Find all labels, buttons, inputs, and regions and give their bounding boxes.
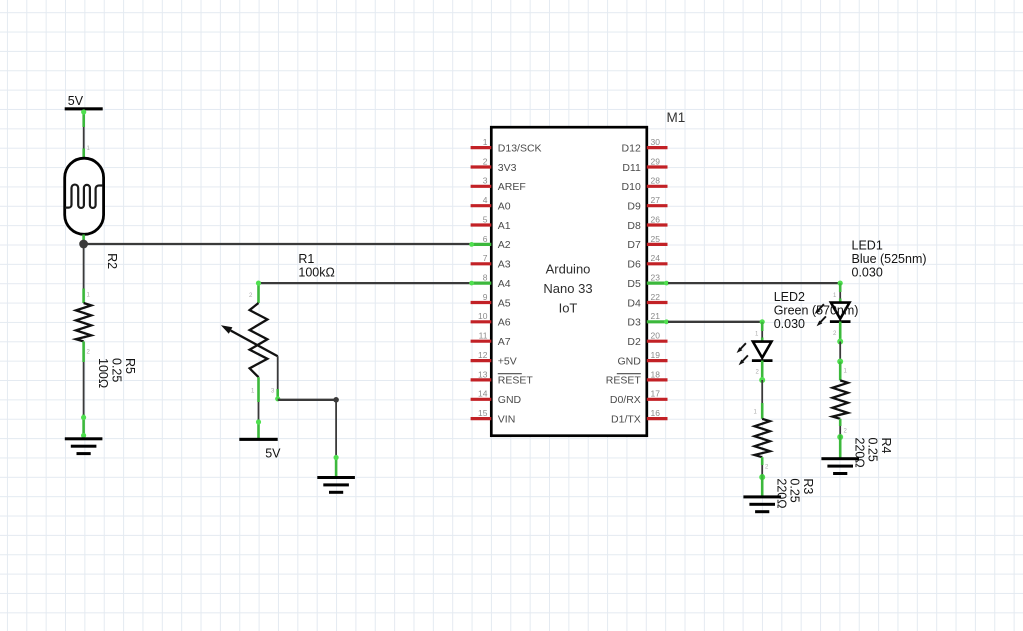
svg-text:GND: GND (498, 394, 522, 406)
svg-text:1: 1 (844, 369, 848, 375)
svg-text:2: 2 (833, 331, 837, 337)
svg-text:0.25: 0.25 (788, 478, 802, 502)
svg-text:D10: D10 (622, 181, 641, 193)
svg-text:A1: A1 (498, 220, 511, 232)
label R1 value (298, 252, 334, 279)
svg-text:RESET: RESET (606, 375, 642, 387)
svg-text:A7: A7 (498, 336, 511, 348)
svg-text:1: 1 (87, 146, 91, 152)
label R2 (105, 253, 119, 269)
svg-text:13: 13 (478, 369, 488, 379)
svg-text:24: 24 (651, 253, 661, 263)
svg-text:4: 4 (483, 195, 488, 205)
svg-text:27: 27 (651, 195, 661, 205)
svg-text:D1/TX: D1/TX (611, 413, 641, 425)
svg-text:30: 30 (651, 137, 661, 147)
svg-text:18: 18 (651, 369, 661, 379)
svg-text:20: 20 (651, 331, 661, 341)
svg-text:VIN: VIN (498, 413, 516, 425)
wire pin3 to bend (278, 399, 336, 401)
svg-text:0.030: 0.030 (774, 317, 805, 331)
svg-text:R4: R4 (879, 438, 893, 454)
svg-text:2: 2 (483, 156, 488, 166)
svg-text:D12: D12 (622, 142, 641, 154)
ground (R1) (317, 476, 355, 494)
wire junction to R5 pin1 (84, 244, 91, 303)
svg-text:AREF: AREF (498, 181, 526, 193)
wire LDR to junction (82, 235, 85, 245)
svg-text:A2: A2 (498, 239, 511, 251)
svg-text:1: 1 (483, 137, 488, 147)
wire bend to ground (334, 400, 339, 477)
svg-text:1: 1 (251, 389, 255, 395)
wire R1 pin1 to 5V (251, 377, 261, 438)
label LED1 (852, 239, 927, 280)
svg-text:22: 22 (651, 292, 661, 302)
svg-text:3: 3 (271, 389, 275, 395)
ground (R5) (65, 437, 103, 455)
svg-text:0.25: 0.25 (110, 358, 124, 382)
svg-text:D9: D9 (627, 201, 641, 213)
wire 5V to LDR (81, 109, 90, 158)
svg-text:D3: D3 (627, 317, 641, 329)
svg-text:0.030: 0.030 (852, 266, 883, 280)
svg-text:10: 10 (478, 311, 488, 321)
svg-text:5: 5 (483, 214, 488, 224)
svg-text:6: 6 (483, 234, 488, 244)
svg-text:12: 12 (478, 350, 488, 360)
label R4 value (852, 438, 893, 468)
svg-text:+5V: +5V (498, 355, 517, 367)
svg-text:5V: 5V (265, 446, 281, 460)
svg-text:D7: D7 (627, 239, 641, 251)
ground (R4) (821, 457, 859, 475)
svg-text:3V3: 3V3 (498, 162, 517, 174)
svg-text:Green (570nm): Green (570nm) (774, 303, 859, 317)
svg-text:15: 15 (478, 408, 488, 418)
svg-text:2: 2 (756, 370, 760, 376)
svg-text:2: 2 (765, 465, 769, 471)
svg-text:16: 16 (651, 408, 661, 418)
photoresistor R2 (LDR) body (65, 158, 104, 234)
IC M1 pins (469, 137, 669, 425)
wire A4 to R1 pin2 (249, 281, 470, 304)
svg-text:R1: R1 (298, 252, 314, 266)
label LED2 (774, 290, 859, 331)
svg-text:GND: GND (617, 355, 641, 367)
svg-text:1: 1 (755, 332, 759, 338)
svg-text:RESET: RESET (498, 375, 534, 387)
svg-text:1: 1 (87, 293, 91, 299)
wire R3 to ground (759, 457, 769, 496)
svg-text:M1: M1 (667, 110, 686, 125)
svg-text:A3: A3 (498, 259, 511, 271)
wire D3 to LED2 (668, 319, 765, 342)
svg-text:8: 8 (483, 273, 488, 283)
svg-text:26: 26 (651, 214, 661, 224)
svg-text:9: 9 (483, 292, 488, 302)
svg-text:Blue (525nm): Blue (525nm) (852, 252, 927, 266)
svg-text:100kΩ: 100kΩ (298, 266, 334, 280)
svg-text:LED2: LED2 (774, 290, 805, 304)
svg-text:14: 14 (478, 389, 488, 399)
svg-text:Arduino: Arduino (546, 262, 591, 277)
svg-text:220Ω: 220Ω (774, 478, 788, 508)
svg-text:2: 2 (249, 293, 253, 299)
svg-text:D6: D6 (627, 259, 641, 271)
svg-text:1: 1 (754, 410, 758, 416)
svg-text:A6: A6 (498, 317, 511, 329)
wire junction to A2 (84, 243, 470, 245)
LED LED2 (737, 342, 773, 366)
IC M1 Arduino Nano 33 IoT body (491, 110, 685, 436)
svg-text:19: 19 (651, 350, 661, 360)
svg-text:D2: D2 (627, 336, 641, 348)
svg-text:3: 3 (483, 176, 488, 186)
svg-text:5V: 5V (68, 94, 84, 108)
svg-text:28: 28 (651, 176, 661, 186)
svg-text:R3: R3 (801, 478, 815, 494)
svg-text:7: 7 (483, 253, 488, 263)
label R3 value (774, 478, 815, 508)
svg-text:LED1: LED1 (852, 239, 883, 253)
power symbol 5V (bottom, inverted) (239, 438, 281, 461)
svg-text:A4: A4 (498, 278, 511, 290)
svg-text:0.25: 0.25 (866, 438, 880, 462)
svg-text:D11: D11 (622, 162, 641, 174)
svg-text:A0: A0 (498, 201, 511, 213)
resistor R4 (833, 380, 848, 418)
svg-text:21: 21 (651, 311, 661, 321)
svg-text:2: 2 (87, 350, 91, 356)
svg-text:11: 11 (479, 331, 488, 341)
wire R1 pin3 wiper down (271, 356, 280, 401)
ground (R3) (743, 495, 781, 513)
svg-text:2: 2 (844, 429, 848, 435)
wire D5 to LED1 (668, 281, 843, 304)
potentiometer R1 (221, 303, 278, 377)
svg-text:IoT: IoT (559, 301, 578, 316)
svg-text:23: 23 (651, 273, 661, 283)
node bend (333, 397, 339, 403)
svg-text:R5: R5 (123, 358, 137, 374)
wire LED1 to R4 (833, 322, 848, 381)
svg-text:D4: D4 (627, 297, 641, 309)
svg-text:1: 1 (833, 293, 837, 299)
svg-text:220Ω: 220Ω (852, 438, 866, 468)
label R5 value (96, 358, 137, 388)
svg-text:17: 17 (651, 389, 661, 399)
svg-text:A5: A5 (498, 297, 511, 309)
node junction A (79, 240, 88, 249)
svg-text:D13/SCK: D13/SCK (498, 142, 542, 154)
resistor R3 (755, 419, 770, 457)
wire R5 to ground (81, 341, 91, 438)
svg-text:D0/RX: D0/RX (610, 394, 641, 406)
wire LED2 to R3 (754, 361, 766, 419)
svg-text:100Ω: 100Ω (96, 358, 110, 388)
svg-text:Nano 33: Nano 33 (543, 281, 592, 296)
svg-text:D5: D5 (627, 278, 641, 290)
power symbol 5V (top) (65, 94, 103, 111)
svg-text:25: 25 (651, 234, 661, 244)
svg-text:D8: D8 (627, 220, 641, 232)
svg-text:29: 29 (651, 156, 661, 166)
svg-text:R2: R2 (105, 253, 119, 269)
resistor R5 (76, 303, 91, 341)
LED LED1 (815, 303, 851, 327)
wire R4 to ground (837, 419, 847, 458)
